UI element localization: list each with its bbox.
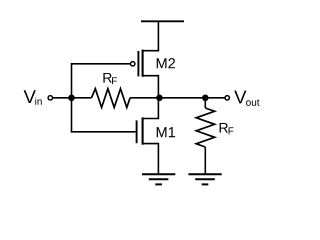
transistor M2 gate bar <box>137 51 139 76</box>
wire node B to resistor RF load <box>204 98 206 108</box>
wire Vin to node A <box>53 97 92 99</box>
terminal Vin <box>48 96 52 100</box>
label RF (feedback) F subscript <box>112 77 117 84</box>
label RF (load) F subscript <box>229 127 234 134</box>
ground (under RF load) <box>188 174 221 184</box>
label RF (feedback) R <box>103 73 111 83</box>
output node junction dot <box>156 95 163 102</box>
wire M1 drain to output node <box>143 98 159 119</box>
transistor M1 channel bar <box>142 117 144 144</box>
resistor RF (horizontal feedback) <box>92 89 131 108</box>
transistor M1 gate bar <box>136 120 138 143</box>
label Vin (V) <box>24 90 36 103</box>
label RF (load) R <box>220 123 228 133</box>
wire feedback left branch (top run to M2 gate, vertical, bottom run to M1 gate) <box>72 64 136 132</box>
resistor RF (vertical load) <box>196 108 214 147</box>
wire M2 source to output node <box>143 76 159 98</box>
node B junction dot (top of RF load) <box>202 95 209 102</box>
label M2 <box>157 58 175 68</box>
M2 gate bubble <box>131 62 135 66</box>
label Vout (out subscript) <box>246 99 259 106</box>
VDD supply bar <box>141 20 184 22</box>
label Vout (V) <box>234 91 246 104</box>
wire M2 drain to VDD <box>143 21 159 50</box>
transistor M2 channel bar <box>142 50 144 77</box>
label Vin (in subscript) <box>35 98 41 105</box>
label M1 <box>157 127 175 137</box>
wire node A to output node to Vout <box>130 97 225 99</box>
node A junction dot <box>68 95 75 102</box>
terminal Vout <box>225 96 229 100</box>
wire M1 source to ground <box>143 144 159 174</box>
wire resistor RF load to ground <box>204 147 206 173</box>
ground (under M1) <box>142 174 175 184</box>
